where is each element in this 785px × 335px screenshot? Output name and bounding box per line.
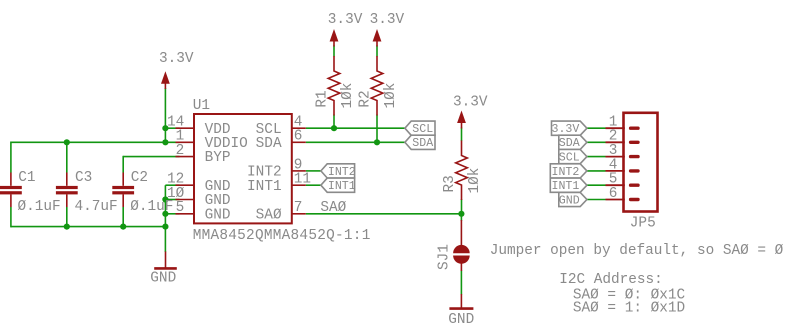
JP5 pin 2 (606, 129, 640, 145)
net flag GND (JP5) (559, 192, 587, 207)
wire SJ1 to GND (460, 271, 462, 295)
wire VDD pin14 (165, 127, 179, 129)
wire R3 top (461, 128, 463, 142)
svg-text:GND: GND (150, 271, 176, 287)
svg-text:GND: GND (559, 194, 580, 207)
svg-text:Jumper open by default, so SAØ: Jumper open by default, so SAØ = Ø (490, 243, 784, 259)
U1 pin 4 SCL (256, 115, 306, 138)
wire GND pin5 (165, 213, 179, 215)
wire SA0 net (306, 213, 462, 215)
svg-text:JP5: JP5 (630, 216, 656, 232)
note jumper default (490, 243, 784, 259)
resistor R1 (315, 56, 356, 116)
svg-text:BYP: BYP (205, 150, 231, 166)
svg-text:1Øk: 1Øk (383, 83, 399, 109)
U1 pin 1 VDDIO (176, 129, 248, 152)
svg-text:MMA8452QMMA8452Q-1:1: MMA8452QMMA8452Q-1:1 (193, 228, 371, 244)
wire R1 top (333, 45, 335, 56)
junction R1-SCL (331, 125, 337, 131)
wire JP5 pin 6 (587, 199, 606, 201)
wire C3 bottom (66, 207, 68, 227)
svg-text:C3: C3 (75, 170, 92, 186)
U1 pin 12 GND (167, 172, 231, 195)
wire JP5 pin 4 (587, 170, 606, 172)
ground (main) (150, 252, 177, 287)
svg-text:SDA: SDA (256, 136, 282, 152)
wire JP5 pin 5 (587, 184, 606, 186)
wire R2 bottom (376, 115, 378, 143)
junction GND pin5 (162, 211, 168, 217)
svg-text:3.3V: 3.3V (552, 123, 580, 136)
wire C1 bottom (10, 207, 12, 227)
svg-text:6: 6 (294, 129, 303, 145)
svg-text:SAØ: SAØ (320, 200, 346, 216)
wire R1 bottom (333, 115, 335, 129)
svg-text:3.3V: 3.3V (453, 94, 488, 110)
junction C2 bottom (120, 224, 126, 230)
svg-text:7: 7 (294, 200, 303, 216)
svg-text:11: 11 (294, 172, 311, 188)
svg-text:R1: R1 (315, 90, 331, 107)
svg-text:2: 2 (176, 143, 185, 159)
svg-text:C1: C1 (18, 170, 35, 186)
wire R3 bottom (461, 199, 463, 214)
svg-text:SCL: SCL (559, 152, 580, 165)
svg-text:1Øk: 1Øk (340, 83, 356, 109)
wire C1 top drop (10, 142, 12, 173)
net flag INT1 (JP5) (550, 178, 587, 193)
net flag INT2 (321, 164, 356, 179)
note address 0x1C (573, 287, 686, 303)
wire JP5 pin 3 (587, 156, 606, 158)
wire BYP drop to C2 (122, 156, 124, 173)
svg-text:R3: R3 (442, 175, 458, 192)
net flag SCL (405, 121, 435, 136)
U1 pin 6 SDA (256, 129, 306, 152)
svg-text:U1: U1 (193, 98, 210, 114)
net flag SDA (JP5) (559, 135, 587, 150)
svg-text:INT1: INT1 (247, 179, 282, 195)
U1 pin 7 SA0 (256, 200, 306, 223)
junction GND bus (162, 224, 168, 230)
svg-text:3.3V: 3.3V (370, 12, 405, 28)
wire GND pin10 (165, 199, 179, 201)
wire SDA net (306, 141, 405, 143)
connector JP5 body (624, 113, 658, 232)
junction VDD (162, 125, 168, 131)
capacitor C3 (56, 170, 118, 215)
junction R3-SA0 (458, 211, 464, 217)
note address 0x1D (573, 301, 685, 317)
net flag 3.3V (JP5) (552, 121, 587, 136)
junction VDDIO (162, 139, 168, 145)
svg-text:Ø.1uF: Ø.1uF (18, 199, 61, 215)
wire GND vertical (164, 185, 166, 226)
junction R2-SDA (374, 139, 380, 145)
wire INT2 net (306, 170, 321, 172)
junction C3 top (64, 139, 70, 145)
JP5 pin 3 (606, 143, 640, 159)
svg-text:3.3V: 3.3V (328, 12, 363, 28)
note I2C address (559, 272, 663, 288)
svg-text:INT2: INT2 (552, 166, 580, 179)
JP5 pin 5 (606, 172, 640, 188)
wire JP5 pin 1 (587, 127, 606, 129)
svg-text:R2: R2 (358, 90, 374, 107)
svg-text:6: 6 (609, 186, 618, 202)
net label SA0 (320, 200, 346, 216)
wire BYP horizontal (123, 156, 179, 158)
U1 pin 11 INT1 (247, 172, 311, 195)
wire R2 top (376, 45, 378, 56)
capacitor C1 (0, 170, 61, 215)
junction C3 bottom (64, 224, 70, 230)
wire GND pin12 (165, 184, 179, 186)
wire JP5 pin 2 (587, 141, 606, 143)
svg-text:GND: GND (448, 312, 474, 328)
ground (SJ1) (448, 294, 474, 328)
svg-text:SAØ = 1: Øx1D: SAØ = 1: Øx1D (573, 301, 685, 317)
svg-text:C2: C2 (131, 170, 148, 186)
junction GND pin10 (162, 196, 168, 202)
U1 pin 2 BYP (176, 143, 231, 166)
wire C2 bottom (122, 207, 124, 227)
U1 pin 9 INT2 (247, 157, 306, 180)
resistor R3 (442, 141, 483, 201)
wire INT1 net (306, 184, 321, 186)
svg-text:INT2: INT2 (328, 166, 356, 179)
capacitor C2 (112, 170, 173, 215)
wire GND bottom bus (11, 226, 166, 228)
U1 pin 10 GND (167, 186, 231, 209)
svg-text:4.7uF: 4.7uF (75, 199, 118, 215)
JP5 pin 4 (606, 157, 640, 173)
U1 pin 5 GND (176, 200, 231, 223)
JP5 pin 6 (606, 186, 640, 202)
resistor R2 (358, 56, 399, 116)
svg-text:5: 5 (176, 200, 185, 216)
svg-text:SDA: SDA (559, 137, 580, 150)
svg-text:1Øk: 1Øk (467, 168, 483, 194)
svg-text:SDA: SDA (412, 137, 433, 150)
net flag SDA (405, 135, 435, 150)
wire SCL net (306, 127, 405, 129)
supply 3.3V (R2) (370, 12, 405, 47)
svg-text:GND: GND (205, 207, 231, 223)
svg-text:INT1: INT1 (552, 180, 580, 193)
svg-text:SCL: SCL (412, 123, 433, 136)
svg-text:SAØ: SAØ (256, 207, 282, 223)
net flag INT2 (JP5) (550, 164, 587, 179)
supply 3.3V (R1) (328, 12, 363, 47)
svg-text:I2C Address:: I2C Address: (559, 272, 663, 288)
wire 3.3V supply to VDD (164, 88, 166, 142)
JP5 pin 1 (606, 115, 640, 131)
wire GND symbol drop (164, 227, 166, 252)
supply 3.3V (R3) (453, 94, 488, 128)
net flag SCL (JP5) (559, 150, 587, 165)
wire SA0 to SJ1 (460, 214, 462, 221)
wire 3V3 top bus (11, 141, 180, 143)
svg-text:SJ1: SJ1 (437, 244, 453, 270)
supply 3.3V (U1) (159, 51, 194, 89)
svg-text:INT1: INT1 (328, 180, 356, 193)
IC U1 MMA8452Q body (193, 98, 371, 244)
svg-text:3.3V: 3.3V (159, 51, 194, 67)
U1 pin 14 VDD (167, 115, 231, 138)
solder jumper SJ1 (437, 220, 470, 271)
wire C3 top drop (66, 142, 68, 172)
net flag INT1 (321, 178, 356, 193)
